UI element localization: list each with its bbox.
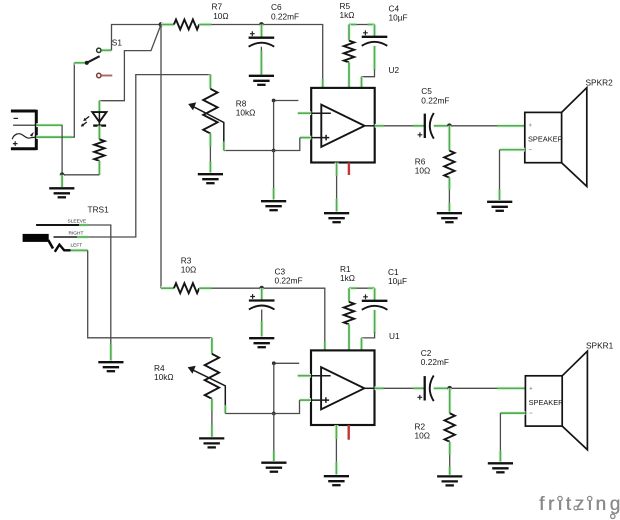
node C6 junction — [259, 22, 264, 27]
wire R4 wiper to U1 +input — [225, 400, 299, 413]
wire stub to U1 inverting input — [274, 362, 299, 364]
wire LED branch to ground node — [62, 174, 99, 176]
capacitor C4 bottom lead — [373, 46, 377, 70]
ground (SPKR1) — [488, 463, 513, 472]
wire stub to U2 inverting input — [274, 100, 299, 102]
U2 inverting input lead — [298, 111, 312, 115]
wire U2 output to C5 — [384, 125, 413, 127]
svg-text:SPKR2: SPKR2 — [586, 77, 614, 87]
LED D1 anode lead — [98, 101, 102, 112]
junction ground node — [60, 172, 65, 177]
battery minus terminal lead — [36, 123, 62, 127]
ground (TRS sleeve) — [98, 362, 123, 371]
node C3 junction — [259, 286, 264, 291]
U1 V+ lead — [323, 341, 327, 350]
U1 output lead — [375, 386, 384, 390]
ground (C3) — [249, 338, 274, 347]
svg-text:1kΩ: 1kΩ — [340, 273, 355, 283]
svg-text:TRS1: TRS1 — [88, 204, 110, 214]
wire battery+ up to switch — [73, 63, 75, 137]
wire C1 bottom to U1 pin8 — [362, 333, 375, 338]
wire U1 output to C2 — [384, 387, 414, 389]
ground (R2) — [437, 476, 462, 485]
switch S1 — [85, 48, 101, 65]
TRS1 sleeve lead — [79, 223, 88, 227]
resistor R3 — [174, 283, 199, 293]
ground (R6) — [437, 213, 462, 222]
svg-text:10Ω: 10Ω — [415, 430, 430, 440]
svg-text:10Ω: 10Ω — [213, 11, 228, 21]
svg-text:SPEAKER: SPEAKER — [529, 398, 564, 407]
node A junction top rail — [159, 22, 164, 27]
wire ground net to ground (lower) — [273, 414, 275, 453]
wire R1-C1 top — [349, 287, 375, 289]
resistor R1 bottom lead — [347, 324, 351, 350]
U2 non-inverting input lead — [300, 136, 311, 140]
wire U2 ground pin down — [336, 176, 338, 199]
svg-text:SPKR1: SPKR1 — [586, 340, 614, 350]
potentiometer R8 — [188, 89, 224, 142]
ground (R4) — [199, 438, 224, 447]
capacitor C4 — [362, 30, 388, 45]
capacitor C1 bottom lead — [373, 310, 377, 333]
U1 inverting input lead — [298, 374, 311, 378]
svg-text:U2: U2 — [389, 65, 400, 75]
switch S1 throw-1 lead — [102, 48, 112, 52]
wire node A to LED (diagonal) — [99, 25, 161, 101]
svg-text:10Ω: 10Ω — [415, 165, 430, 175]
battery BAT1 symbol — [11, 110, 36, 150]
wire R3 to C3 node — [212, 287, 262, 289]
wire junction to SPKR2 — [449, 125, 497, 127]
potentiometer R8 top lead — [208, 75, 212, 89]
U2 output lead — [375, 124, 384, 128]
ground (battery) — [49, 188, 74, 197]
potentiometer R4 — [188, 354, 226, 405]
wire ground net to ground — [273, 151, 275, 189]
capacitor C4 top lead — [373, 25, 377, 37]
capacitor C6 — [249, 31, 275, 46]
potentiometer R4 wiper lead — [223, 405, 227, 414]
ground (R8) — [198, 174, 223, 183]
resistor R1 top lead — [347, 288, 351, 302]
switch S1 common lead — [74, 61, 87, 65]
wire C6 node to U2 V+ — [262, 25, 323, 80]
ground (U1) — [324, 476, 349, 485]
SPKR1 pin2 lead — [500, 411, 525, 415]
resistor R6 bottom lead — [447, 178, 451, 190]
svg-text:10kΩ: 10kΩ — [154, 372, 174, 382]
speaker SPKR2 body — [525, 88, 587, 187]
wire switch to top rail — [112, 25, 162, 51]
resistor R7 lead left — [161, 23, 174, 27]
wire TRS sleeve to ground — [88, 225, 110, 345]
ground lead (battery) — [60, 175, 64, 187]
op-amp U2 body — [311, 88, 375, 163]
resistor R5 top lead — [347, 25, 351, 41]
svg-text:S1: S1 — [112, 38, 123, 48]
capacitor C3 bottom lead — [261, 310, 263, 322]
capacitor C5 — [418, 113, 434, 139]
U2 V+ lead — [321, 79, 325, 88]
wire R2 to ground — [449, 455, 451, 473]
svg-text:0.22mF: 0.22mF — [275, 276, 303, 286]
wire TRS right to R8 top — [88, 75, 210, 237]
capacitor C3 — [249, 294, 275, 309]
ground (input bias top) — [261, 201, 286, 210]
potentiometer R8 bottom lead — [208, 134, 212, 147]
junction stub top — [272, 99, 276, 103]
svg-text:1kΩ: 1kΩ — [340, 10, 355, 20]
svg-text:10µF: 10µF — [388, 276, 407, 286]
potentiometer R8 wiper lead — [222, 142, 226, 151]
resistor bottom lead — [98, 161, 102, 175]
U1 pin8 lead — [360, 338, 364, 351]
battery plus terminal lead — [36, 135, 72, 139]
capacitor C6 bottom lead — [260, 47, 262, 51]
wire R5-C4 top — [349, 24, 375, 26]
resistor R7 — [174, 20, 199, 30]
svg-text:0.22mF: 0.22mF — [421, 357, 449, 367]
capacitor C5 right lead — [434, 124, 450, 128]
fritzing watermark — [539, 494, 620, 519]
svg-text:10µF: 10µF — [389, 13, 408, 23]
capacitor C2 — [417, 376, 433, 402]
resistor R1 — [344, 302, 354, 325]
junction wiper net lower — [272, 412, 276, 416]
resistor R7 lead right — [199, 23, 211, 27]
capacitor C1 top lead — [373, 288, 377, 301]
wire TRS left to R4 top — [88, 250, 212, 337]
resistor R5 bottom lead — [347, 62, 351, 88]
svg-text:U1: U1 — [389, 331, 400, 341]
node C2-R2-SPKR1 junction — [447, 386, 452, 391]
switch S1 throw-2 unconnected pin — [97, 73, 113, 77]
wire ground net vertical (lower) — [273, 363, 275, 413]
resistor R5 — [344, 41, 354, 63]
svg-text:LEFT: LEFT — [71, 243, 83, 249]
SPKR2 pin2 lead — [500, 148, 525, 152]
wire R7 to C6 node — [212, 24, 262, 26]
ground (SPKR2) — [487, 202, 512, 211]
TRS1 jack symbol — [23, 225, 79, 252]
wire U1 ground pin down — [335, 439, 337, 462]
U2 bypass pin (unconnected, red) — [348, 163, 350, 176]
ground (input bias lower) — [261, 463, 286, 472]
resistor R3 lead right — [199, 286, 211, 290]
LED D1 — [81, 112, 107, 127]
junction wiper net — [272, 149, 276, 153]
wire SPKR1 pin2 to ground — [499, 413, 501, 452]
wire R6 to ground — [448, 190, 450, 209]
U2 ground pin lead — [335, 163, 339, 177]
wire R8 bottom to ground — [209, 147, 211, 163]
wire SPKR2 pin2 to ground — [499, 150, 501, 190]
U1 ground pin lead — [334, 425, 338, 439]
svg-text:0.22mF: 0.22mF — [271, 11, 299, 21]
resistor R2 — [445, 413, 455, 442]
resistor R3 lead left — [161, 286, 174, 290]
speaker SPKR1 body — [525, 351, 587, 450]
resistor R2 bottom lead — [448, 442, 452, 455]
resistor R6 — [444, 151, 454, 178]
svg-text:10kΩ: 10kΩ — [236, 108, 256, 118]
TRS1 right lead — [77, 235, 88, 239]
potentiometer R4 bottom lead — [210, 399, 214, 411]
svg-text:10Ω: 10Ω — [181, 264, 196, 274]
wire R8 wiper to U2 +input — [224, 138, 300, 151]
resistor R2 top lead — [448, 388, 452, 413]
wire R4 bottom to ground — [211, 411, 213, 426]
capacitor C2 right lead — [434, 386, 450, 390]
node C5-R6-SPKR2 junction — [447, 123, 452, 128]
wire C3 node to U1 V+ — [262, 288, 325, 341]
resistor R6 top lead — [447, 126, 451, 151]
wire C4 bottom to U2 pin8 — [362, 70, 375, 77]
U2 pin8 lead — [360, 77, 364, 88]
wire ground net vertical (top) — [273, 101, 275, 151]
ground (U2) — [324, 213, 349, 222]
TRS1 left lead — [71, 248, 88, 252]
LED D1 cathode lead — [98, 126, 102, 140]
capacitor C1 — [362, 294, 388, 309]
svg-text:fritzing: fritzing — [539, 494, 620, 515]
resistor (LED series) — [94, 139, 104, 161]
wire junction to SPKR1 — [450, 387, 497, 389]
U1 non-inverting input lead — [300, 398, 312, 402]
capacitor C6 top lead — [260, 25, 264, 38]
ground (C6) — [249, 76, 274, 85]
capacitor C3 top lead — [260, 288, 264, 300]
wire node A down to R3 — [160, 25, 162, 289]
wire battery- to ground node — [61, 125, 63, 175]
U1 bypass pin (unconnected, red) — [348, 425, 350, 440]
potentiometer R4 top lead — [210, 338, 214, 354]
svg-text:0.22mF: 0.22mF — [421, 95, 449, 105]
op-amp U1 body — [311, 350, 375, 425]
svg-text:SPEAKER: SPEAKER — [528, 134, 563, 143]
junction stub lower — [272, 361, 276, 365]
